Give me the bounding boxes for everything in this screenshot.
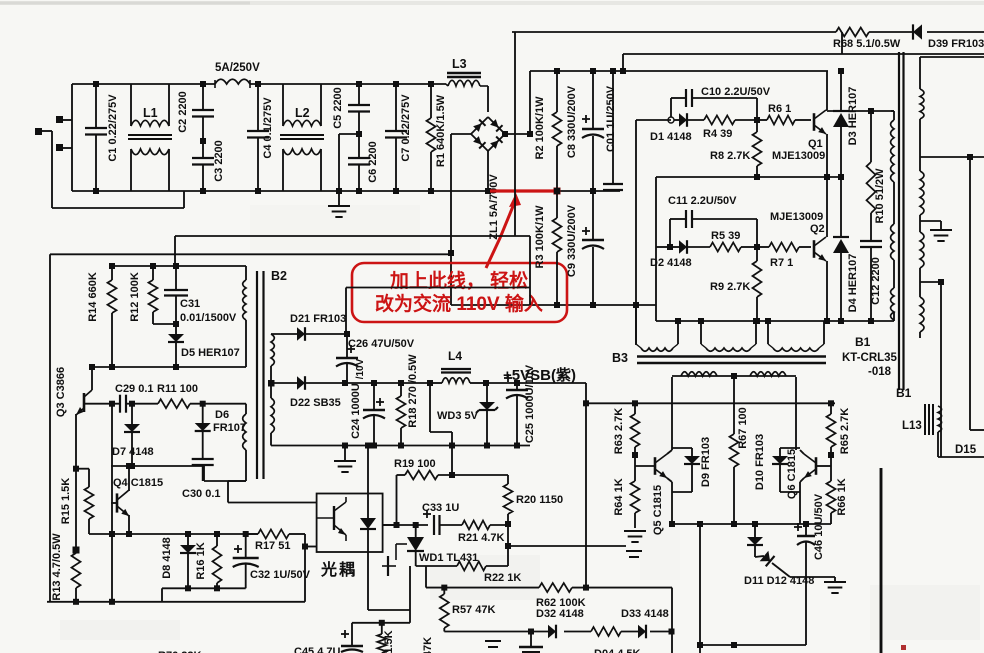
svg-text:D22 SB35: D22 SB35 — [290, 397, 341, 409]
svg-text:+5VSB(紫): +5VSB(紫) — [503, 367, 576, 384]
svg-text:C10 2.2U/50V: C10 2.2U/50V — [701, 86, 771, 98]
label R6 — [768, 103, 791, 115]
svg-text:C4 0.1/275V: C4 0.1/275V — [262, 97, 274, 159]
wire 5VSB rail right — [483, 380, 586, 386]
label D6 type — [213, 422, 246, 434]
inductor L2 common-mode choke — [280, 84, 324, 191]
resistor R1 — [427, 81, 436, 194]
ground input filter — [328, 188, 350, 217]
svg-text:C24 1000U: C24 1000U — [350, 383, 362, 439]
wire oscillator mid rail y177 — [656, 174, 844, 321]
label D8 — [161, 537, 173, 579]
svg-text:D15: D15 — [955, 444, 977, 456]
svg-text:/10V: /10V — [355, 358, 366, 379]
svg-text:R22 1K: R22 1K — [484, 572, 521, 584]
transistor Q5 — [635, 450, 672, 482]
label D1 — [650, 131, 692, 143]
diode D4 — [833, 177, 849, 321]
svg-text:MJE13009: MJE13009 — [772, 150, 825, 162]
wire opto LED cathode down — [368, 552, 410, 623]
svg-text:R6 1: R6 1 — [768, 103, 791, 115]
resistor R16 — [213, 534, 222, 588]
label Q5 — [652, 485, 664, 535]
wire bottom AC rail — [72, 190, 620, 192]
svg-text:KT-CRL35: KT-CRL35 — [842, 352, 898, 364]
label D33 — [621, 608, 669, 620]
resistor R22 — [416, 562, 508, 571]
diode D1 — [668, 113, 687, 127]
wire mid horizontal y236 — [175, 236, 530, 305]
svg-text:C33 1U: C33 1U — [422, 502, 459, 514]
svg-text:D2 4148: D2 4148 — [650, 257, 692, 269]
red arrow — [486, 193, 521, 268]
inductor L4 — [430, 369, 486, 383]
label D7 — [112, 446, 154, 458]
resistor R14 — [108, 263, 117, 370]
wire D8 R16 C32 bottom row — [162, 585, 246, 602]
svg-text:L1: L1 — [143, 106, 158, 120]
label R66 — [836, 478, 848, 515]
svg-text:C01 1U/250V: C01 1U/250V — [605, 85, 617, 152]
diode D6 — [195, 404, 211, 459]
wire v426 — [425, 566, 427, 588]
svg-text:L13: L13 — [902, 420, 922, 432]
svg-text:R21 4.7K: R21 4.7K — [458, 532, 505, 544]
wire rail y54 to transformer B1 — [623, 32, 984, 54]
svg-text:L2: L2 — [295, 106, 310, 120]
wire opto pin2 row — [305, 546, 317, 548]
label +5VSB — [503, 367, 576, 384]
diode D8 — [180, 534, 196, 588]
ground R64 — [624, 531, 646, 542]
label C8 — [566, 85, 578, 158]
diode D7 — [124, 404, 140, 469]
svg-text:ZL1 5A/700V: ZL1 5A/700V — [488, 174, 500, 240]
transformer B1 primary winding — [891, 111, 894, 321]
label C4 — [262, 97, 274, 159]
label L13 — [902, 420, 922, 432]
label L1 — [143, 106, 158, 120]
svg-text:C32 1U/50V: C32 1U/50V — [250, 569, 311, 581]
resistor R7 — [757, 243, 811, 252]
svg-text:D21 FR103: D21 FR103 — [290, 313, 346, 325]
svg-text:D3 HER107: D3 HER107 — [847, 87, 859, 146]
label C3 — [213, 140, 225, 182]
resistor R5 — [687, 243, 760, 252]
red modification wire — [490, 188, 561, 195]
AC plug input connector — [35, 116, 72, 151]
wire R19 left drop — [383, 475, 397, 525]
label optocoupler — [320, 560, 357, 579]
svg-text:C6 2200: C6 2200 — [367, 141, 379, 183]
transformer B2 primary winding — [243, 266, 246, 367]
thick output bus — [880, 468, 883, 653]
label C33 — [422, 502, 459, 514]
resistor R9 — [753, 247, 762, 324]
svg-text:C30 0.1: C30 0.1 — [182, 488, 221, 500]
wire 5VSB diode output row — [345, 380, 433, 386]
label D4 — [847, 254, 859, 313]
svg-text:Q4 C1815: Q4 C1815 — [113, 477, 163, 489]
capacitor C8 electrolytic — [582, 71, 604, 194]
label L3 — [452, 57, 467, 71]
resistor R11 — [132, 399, 246, 408]
label D6 name — [215, 409, 229, 421]
label B3 — [612, 351, 628, 365]
wire bridge DC+ to oscillator rail — [504, 71, 533, 137]
wire D15 row — [938, 456, 984, 458]
svg-text:R65 2.7K: R65 2.7K — [839, 408, 851, 455]
label R17 — [255, 540, 290, 552]
wire cup feeds — [636, 305, 824, 330]
label R1 — [435, 94, 447, 167]
capacitor C25 electrolytic — [504, 374, 528, 449]
transformer B3 upper winding 3 — [768, 330, 824, 351]
transformer B3 upper winding 2 — [701, 330, 756, 351]
svg-text:R8 2.7K: R8 2.7K — [710, 150, 750, 162]
wire B1 sec tap2 — [920, 154, 984, 160]
svg-text:C11 2.2U/50V: C11 2.2U/50V — [668, 195, 737, 207]
svg-text:光耦: 光耦 — [320, 560, 357, 579]
wire bottom-left ground rail — [47, 601, 305, 603]
svg-text:L4: L4 — [448, 349, 462, 363]
label Q1 — [808, 138, 823, 150]
label B1 type2 — [868, 366, 892, 378]
svg-text:R16 1K: R16 1K — [195, 542, 207, 579]
transformer B3 core — [637, 357, 826, 364]
svg-text:R7 1: R7 1 — [770, 257, 793, 269]
label R4 — [703, 128, 732, 140]
resistor R13 — [72, 553, 81, 605]
label C24 — [350, 383, 362, 439]
label C32 — [250, 569, 311, 581]
capacitor C11 — [670, 210, 757, 247]
diode D12 — [755, 551, 790, 577]
svg-text:C12 2200: C12 2200 — [870, 257, 882, 305]
label R21 — [458, 532, 505, 544]
transistor Q1 — [814, 71, 830, 180]
wire R62 row — [426, 585, 672, 591]
label Q3 — [55, 367, 67, 417]
wire B1 sec tap4 — [920, 279, 944, 457]
ground 5VSB — [334, 446, 356, 473]
label WD3 — [437, 410, 479, 422]
label C26b — [355, 358, 366, 379]
capacitor C33 — [423, 510, 462, 535]
svg-text:D6: D6 — [215, 409, 229, 421]
transistor Q2 — [814, 177, 827, 321]
label R9 — [710, 281, 750, 293]
svg-text:FR107: FR107 — [213, 422, 246, 434]
ground D12 — [824, 582, 846, 593]
capacitor C31 — [164, 266, 188, 334]
wire C5-C6 midpoint to ground — [339, 134, 359, 191]
label L4 — [448, 349, 462, 363]
svg-text:R4 39: R4 39 — [703, 128, 732, 140]
wire feedback row y525 — [394, 522, 429, 528]
wire R20 R22 junction vertical — [505, 524, 511, 566]
svg-text:C29 0.1: C29 0.1 — [115, 383, 154, 395]
label R12 — [129, 272, 141, 322]
wire Q5 emitter — [669, 482, 675, 527]
capacitor C30 — [192, 459, 214, 481]
resistor R19 — [397, 471, 509, 480]
diode D39 — [913, 24, 922, 39]
resistor R64 — [631, 466, 640, 528]
label C45 — [294, 646, 341, 653]
label 47K partial — [422, 637, 434, 653]
inductor L3 — [446, 73, 488, 112]
capacitor C5 — [348, 81, 370, 137]
transformer B2 core — [257, 271, 264, 479]
snubber R10 — [867, 111, 876, 213]
svg-text:R68 5.1/0.5W: R68 5.1/0.5W — [833, 38, 901, 50]
svg-text:C45 4.7U: C45 4.7U — [294, 646, 341, 653]
label C31 value — [180, 312, 237, 324]
svg-text:D10 FR103: D10 FR103 — [754, 434, 766, 490]
transistor Q3 — [76, 364, 95, 415]
label R20 — [516, 494, 563, 506]
svg-text:C1 0.22/275V: C1 0.22/275V — [107, 94, 119, 162]
scan smudge2 — [60, 620, 180, 640]
resistor R18 — [397, 383, 406, 446]
svg-text:R15 1.5K: R15 1.5K — [60, 478, 72, 525]
wire top rail y32 — [512, 31, 984, 33]
svg-text:L3: L3 — [452, 57, 467, 71]
svg-text:C8 330U/200V: C8 330U/200V — [566, 85, 578, 158]
resistor R2 — [553, 71, 562, 194]
label C12 — [870, 257, 882, 305]
label C10 — [701, 86, 771, 98]
diode D21 — [271, 327, 350, 341]
tl431 ref marks — [382, 556, 396, 576]
svg-text:R2 100K/1W: R2 100K/1W — [534, 96, 546, 160]
svg-text:R1 640K/1.5W: R1 640K/1.5W — [435, 94, 447, 167]
tl431 WD1 — [396, 525, 424, 566]
inductor L1 common-mode choke — [128, 84, 172, 191]
label R16 — [195, 542, 207, 579]
scan smudge3 — [870, 585, 980, 640]
svg-text:C3 2200: C3 2200 — [213, 140, 225, 182]
transformer B2 feedback winding — [228, 404, 246, 503]
svg-text:R66 1K: R66 1K — [836, 478, 848, 515]
capacitor C1 — [85, 81, 107, 194]
label C25 — [524, 364, 536, 443]
wire B1 sec tap1 — [920, 56, 984, 58]
wire D1 feed from B3 — [636, 120, 671, 345]
label D5 — [181, 347, 240, 359]
label C46 — [813, 493, 825, 560]
svg-text:R57 47K: R57 47K — [452, 604, 495, 616]
svg-text:0.01/1500V: 0.01/1500V — [180, 312, 237, 324]
svg-text:WD3 5V: WD3 5V — [437, 410, 479, 422]
resistor R57 — [440, 588, 449, 632]
wire drive bottom rail — [672, 521, 831, 527]
zener WD3 — [476, 383, 498, 449]
svg-text:C2 2200: C2 2200 — [177, 91, 189, 133]
resistor R3 — [553, 191, 562, 305]
label B1 top — [855, 335, 871, 349]
resistor R20 — [504, 475, 513, 527]
transformer B3 lower winding 1 — [672, 372, 796, 450]
label fuse 5A/250V — [215, 62, 260, 74]
red annotation text line1 — [389, 269, 528, 292]
svg-text:Q3 C3866: Q3 C3866 — [55, 367, 67, 417]
label C01 — [605, 85, 617, 152]
bridge rectifier ZL1 — [471, 117, 508, 194]
svg-text:R64 1K: R64 1K — [613, 478, 625, 515]
svg-text:R19 100: R19 100 — [394, 458, 436, 470]
label C30 — [182, 488, 221, 500]
wire B3 center tap — [733, 376, 735, 434]
label C1 — [107, 94, 119, 162]
label L2 — [295, 106, 310, 120]
svg-text:改为交流 110V 输入: 改为交流 110V 输入 — [375, 292, 543, 315]
capacitor C2 — [192, 81, 214, 144]
diode D33 — [638, 625, 646, 639]
capacitor C9 electrolytic — [582, 191, 604, 305]
wire left input vertical — [71, 84, 73, 191]
transformer B2 secondary winding — [268, 334, 275, 446]
label R18 — [407, 354, 419, 428]
label R14 — [87, 272, 99, 322]
svg-text:R9 2.7K: R9 2.7K — [710, 281, 750, 293]
svg-text:47K: 47K — [422, 637, 434, 653]
svg-text:1.5K: 1.5K — [383, 630, 395, 653]
wire R17 step down — [302, 544, 308, 602]
svg-text:D04 4.5K: D04 4.5K — [594, 648, 641, 653]
wire branch up to y54 rail — [622, 54, 624, 71]
capacitor C3 — [192, 141, 214, 194]
label R62 — [536, 597, 586, 609]
label R8 — [710, 150, 750, 162]
resistor R6 — [757, 116, 811, 125]
transistor Q4 — [111, 490, 129, 516]
label D9 — [700, 437, 712, 487]
label R19 — [394, 458, 436, 470]
wire B2 feed vertical — [174, 236, 176, 266]
resistor R66 — [827, 466, 836, 524]
label R10 — [874, 168, 886, 224]
diode D11 — [747, 524, 763, 557]
svg-text:R11 100: R11 100 — [157, 383, 198, 395]
wire bridge DC- down — [448, 134, 472, 305]
capacitor C26 electrolytic — [336, 334, 358, 383]
wire D31 D33 row — [444, 629, 674, 635]
label D21 — [290, 313, 346, 325]
label R65 — [839, 408, 851, 455]
wire Q4 emitter — [126, 515, 132, 537]
label C9 — [566, 204, 578, 277]
svg-text:D1 4148: D1 4148 — [650, 131, 692, 143]
resistor R65 — [827, 403, 836, 466]
label D32 — [536, 608, 584, 620]
wire h287 and drop to D21 node — [346, 288, 530, 333]
wire C30 bottom row — [111, 466, 246, 481]
label R15 — [60, 478, 72, 525]
wire feedback to secondary — [508, 545, 626, 547]
resistor R8 — [753, 120, 762, 180]
label R11 — [157, 383, 198, 395]
label B2 — [271, 269, 287, 283]
transformer B3 lower winding 2 — [750, 372, 796, 450]
wire opto LED supply — [367, 446, 369, 494]
snubber C12 — [860, 213, 882, 321]
label D2 — [650, 257, 692, 269]
wire Q4 collector — [126, 463, 132, 491]
svg-text:D33 4148: D33 4148 — [621, 608, 669, 620]
capacitor C46 electrolytic — [794, 523, 815, 577]
wire base row y534 — [112, 531, 258, 537]
capacitor C45 electrolytic — [341, 623, 363, 652]
svg-text:R20 1150: R20 1150 — [516, 494, 563, 506]
label D11 D12 — [744, 575, 814, 587]
svg-text:C5 2200: C5 2200 — [332, 87, 344, 129]
svg-text:Q1: Q1 — [808, 138, 823, 150]
wire B2 snubber top rail — [111, 263, 246, 269]
wire opto pin1 row — [228, 502, 317, 504]
label WD1 — [419, 552, 478, 564]
label B1 bottom — [896, 386, 912, 400]
label R7 — [770, 257, 793, 269]
transformer B1 secondary winding — [920, 57, 924, 338]
label C11 — [668, 195, 737, 207]
svg-text:R5 39: R5 39 — [711, 230, 740, 242]
label R67 — [737, 407, 749, 449]
wire top AC rail — [72, 83, 446, 85]
svg-text:-018: -018 — [868, 366, 892, 378]
label C29 — [115, 383, 154, 395]
wire WD1 lower vertical — [352, 620, 410, 626]
svg-text:C9 330U/200V: C9 330U/200V — [566, 204, 578, 277]
label R5 — [711, 230, 740, 242]
capacitor C44 partial — [519, 632, 543, 653]
wire L4 bypass — [430, 383, 452, 475]
wire B2 snubber bottom rail — [92, 364, 246, 370]
scan artifact top line — [0, 1, 984, 5]
wire B1 sec tap3 to ground — [920, 221, 941, 229]
capacitor C32 electrolytic — [233, 534, 259, 588]
resistor R21 — [462, 521, 508, 530]
label R68 — [833, 38, 901, 50]
label C31 name — [180, 298, 200, 310]
svg-text:R17 51: R17 51 — [255, 540, 290, 552]
capacitor C4 — [247, 81, 269, 194]
wire base bus vertical — [109, 404, 115, 605]
svg-text:D9 FR103: D9 FR103 — [700, 437, 712, 487]
optocoupler phototransistor — [317, 497, 346, 541]
diode D3 — [833, 68, 849, 177]
svg-text:B1: B1 — [896, 386, 912, 400]
svg-text:C46 10U/50V: C46 10U/50V — [813, 493, 825, 560]
wire 5VSB sense vertical — [583, 383, 589, 591]
label R63 — [613, 408, 625, 455]
resistor R17 — [246, 530, 305, 547]
wire center drop — [697, 524, 806, 653]
svg-text:R18 270 /0.5W: R18 270 /0.5W — [407, 354, 419, 428]
svg-text:B2: B2 — [271, 269, 287, 283]
diode D10 — [772, 448, 800, 492]
label Q4 — [113, 477, 163, 489]
label R76 — [158, 650, 201, 653]
resistor R67 — [730, 434, 739, 527]
scan smudge4 — [250, 205, 420, 250]
red annotation text line2 — [375, 292, 543, 315]
resistor R4 — [687, 116, 760, 125]
label R22 — [484, 572, 521, 584]
label ZL1 — [488, 174, 500, 240]
label Q6 — [786, 449, 798, 499]
